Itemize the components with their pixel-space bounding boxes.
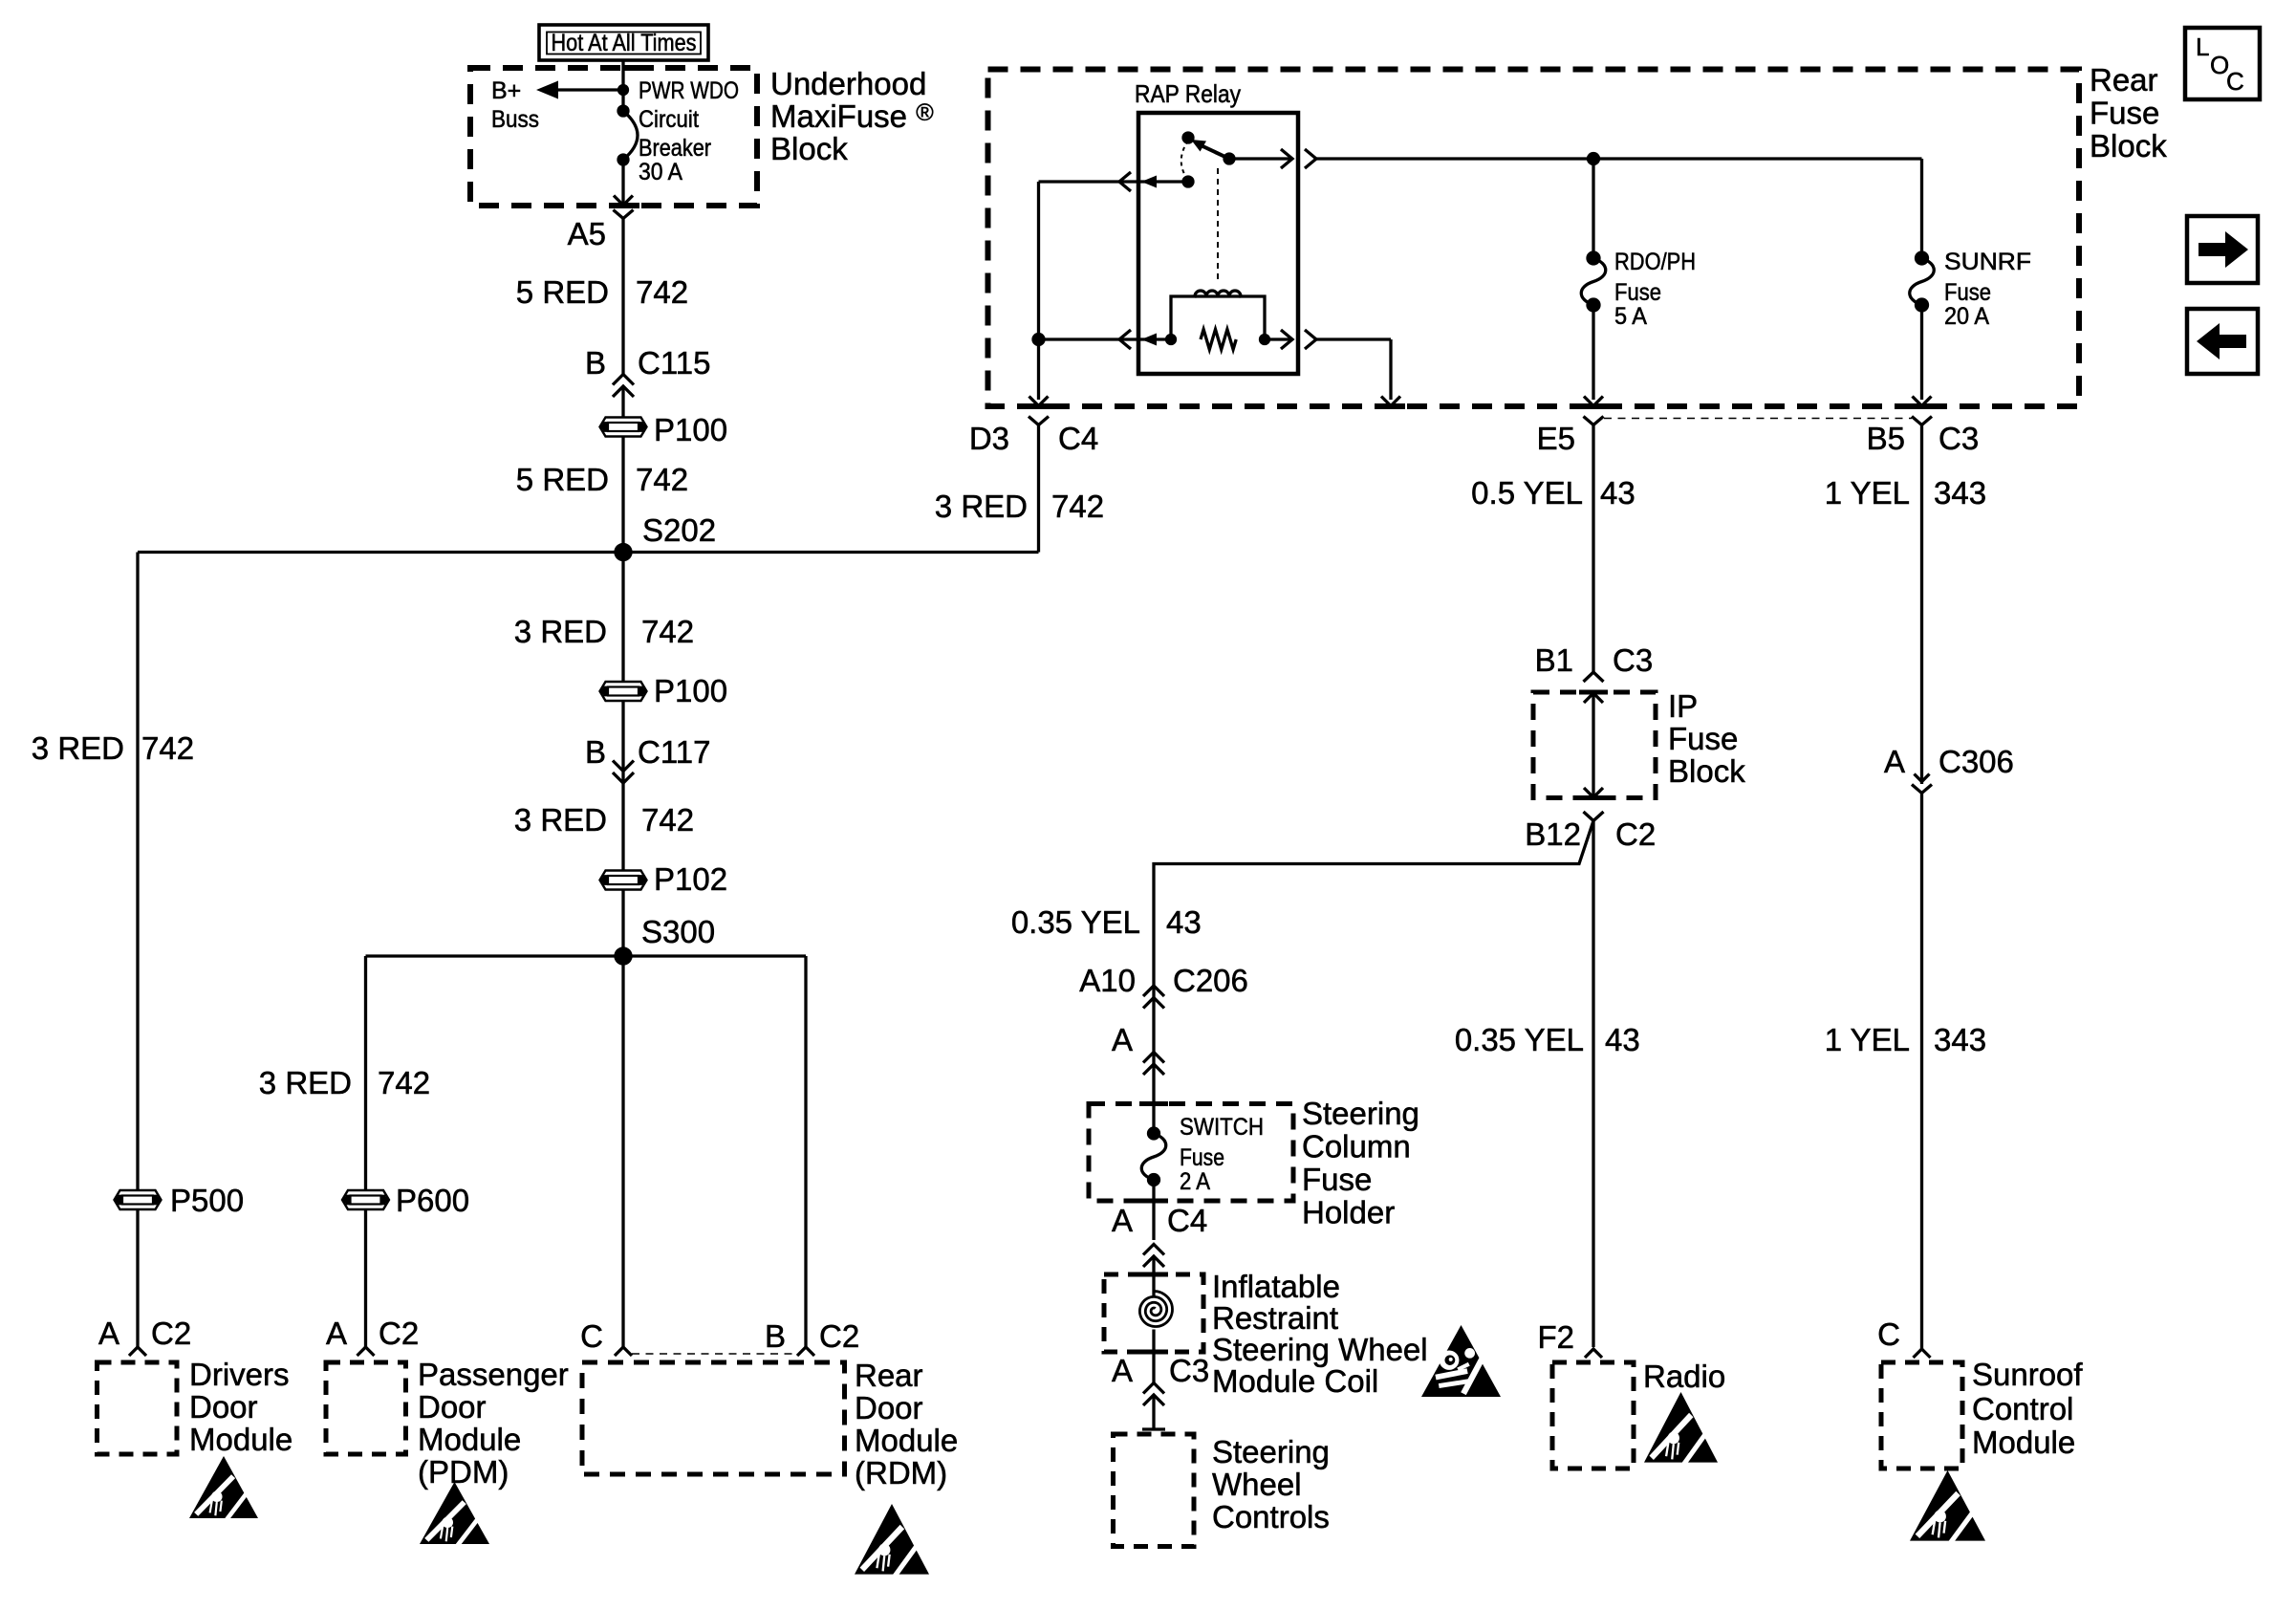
svg-text:B: B	[585, 734, 606, 770]
connector C206 pin A10	[1079, 963, 1248, 1009]
svg-text:SWITCH: SWITCH	[1180, 1114, 1264, 1141]
svg-text:Door: Door	[418, 1389, 487, 1425]
svg-text:3 RED: 3 RED	[32, 730, 124, 766]
wire from Hot box into block	[621, 60, 624, 111]
label 1 YEL 343 lower	[1825, 1022, 1986, 1057]
svg-text:C: C	[1877, 1316, 1900, 1352]
svg-text:30 A: 30 A	[639, 159, 682, 185]
svg-text:742: 742	[141, 730, 194, 766]
label 1 YEL 343	[1825, 475, 1986, 511]
relay coil	[1171, 291, 1265, 339]
connector C3 pin B1	[1535, 642, 1654, 682]
svg-text:Controls: Controls	[1212, 1499, 1330, 1534]
relay armature arm	[1198, 144, 1229, 160]
svg-text:F2: F2	[1537, 1319, 1574, 1355]
svg-text:C3: C3	[1169, 1353, 1209, 1388]
svg-text:C4: C4	[1058, 421, 1098, 456]
svg-text:742: 742	[641, 614, 694, 649]
wire fuse to holder edge	[1152, 1180, 1155, 1240]
svg-text:3 RED: 3 RED	[935, 489, 1028, 524]
wire RDO/PH fuse to edge	[1592, 305, 1594, 400]
IP Fuse Block dashed box	[1533, 692, 1656, 798]
wire passenger branch	[364, 956, 367, 1190]
svg-text:Drivers: Drivers	[189, 1357, 290, 1392]
grommet P600	[342, 1190, 389, 1209]
svg-text:742: 742	[378, 1065, 430, 1100]
wire 742 segment A5 to C115	[621, 219, 624, 375]
connector A5	[614, 210, 634, 219]
connector C2 pin B rear	[765, 1318, 859, 1356]
svg-text:742: 742	[636, 274, 688, 310]
Steering Wheel Controls dashed box	[1114, 1434, 1195, 1547]
connector pin F2 radio	[1537, 1319, 1602, 1358]
svg-text:Sunroof: Sunroof	[1972, 1357, 2083, 1392]
label 0.35 YEL 43 steering	[1011, 904, 1202, 940]
svg-text:P100: P100	[654, 412, 727, 447]
svg-text:Module: Module	[418, 1422, 521, 1457]
wire P100 to S202	[621, 436, 624, 553]
svg-text:Buss: Buss	[491, 106, 539, 133]
ESD symbol sunroof	[1910, 1470, 1985, 1545]
svg-text:(RDM): (RDM)	[855, 1455, 947, 1490]
svg-text:5 A: 5 A	[1614, 303, 1647, 330]
arrow right reference box	[2187, 216, 2258, 283]
svg-text:742: 742	[636, 462, 688, 497]
wire S300 down to RDM pin C	[621, 956, 624, 1347]
connector C2 pin B12	[1525, 812, 1656, 852]
wire C306 to sunroof module	[1920, 794, 1923, 1350]
wire P500 to drivers module	[136, 1210, 139, 1348]
svg-text:A: A	[326, 1316, 347, 1351]
wire down to SUNRF fuse	[1920, 159, 1923, 258]
svg-text:43: 43	[1166, 904, 1202, 940]
svg-text:D3: D3	[969, 421, 1009, 456]
Inflatable Restraint coil dashed box	[1104, 1274, 1203, 1352]
wire relay armature to left edge	[1039, 180, 1189, 183]
label 5 RED 742	[516, 274, 688, 310]
Hot At All Times label box	[539, 25, 708, 60]
svg-text:Module: Module	[1972, 1425, 2075, 1460]
svg-text:P100: P100	[654, 673, 727, 708]
wire B12 down to radio	[1592, 821, 1594, 1348]
svg-text:C2: C2	[819, 1318, 859, 1354]
wire B12 diagonal tap	[1154, 821, 1593, 1104]
svg-text:Fuse: Fuse	[1944, 279, 1991, 306]
label 3 RED 742	[32, 730, 194, 766]
fuse RDO/PH 5 A	[1581, 252, 1606, 311]
connector pin E5	[1537, 417, 1604, 457]
splice S300	[616, 948, 631, 964]
wire D3 to S202	[1037, 425, 1040, 553]
svg-text:0.35 YEL: 0.35 YEL	[1011, 904, 1140, 940]
wire coil to C3	[1152, 1330, 1155, 1383]
svg-text:Fuse: Fuse	[1614, 279, 1661, 306]
Sunroof Control Module box	[1881, 1362, 1962, 1469]
wire S202 down to P100	[621, 553, 624, 682]
wire S202 horizontal run	[138, 551, 1039, 554]
connector C3 pin A	[1112, 1353, 1209, 1405]
wire C4 to coil box	[1152, 1256, 1155, 1296]
svg-text:Fuse: Fuse	[1302, 1162, 1372, 1197]
circuit breaker PWR WDO 30 A	[618, 106, 638, 164]
wire relay NO output to fuses	[1229, 157, 1290, 160]
svg-text:B: B	[585, 345, 606, 381]
connector C2 link dashes	[632, 1353, 797, 1355]
svg-text:Steering: Steering	[1212, 1434, 1330, 1469]
coil spiral	[1139, 1292, 1172, 1327]
svg-text:Circuit: Circuit	[639, 106, 699, 133]
svg-text:20 A: 20 A	[1944, 303, 1989, 330]
label 5 RED 742	[516, 462, 688, 497]
svg-text:P102: P102	[654, 861, 727, 897]
svg-text:Block: Block	[2090, 128, 2167, 163]
connector C2 pin A drivers	[98, 1316, 191, 1356]
wire D3 feed column	[1037, 182, 1040, 400]
svg-text:5 RED: 5 RED	[516, 462, 609, 497]
svg-text:B5: B5	[1867, 421, 1905, 456]
wire relay coil row left	[1039, 337, 1172, 340]
svg-text:PWR WDO: PWR WDO	[639, 77, 739, 104]
svg-text:A5: A5	[568, 216, 606, 251]
svg-text:Door: Door	[855, 1390, 923, 1425]
svg-text:Rear: Rear	[855, 1358, 923, 1393]
Radio box	[1552, 1362, 1634, 1469]
connector C306 pin A	[1884, 744, 2014, 794]
arrow left reference box	[2187, 309, 2258, 374]
svg-text:RAP Relay: RAP Relay	[1135, 79, 1241, 108]
svg-text:C: C	[2226, 67, 2244, 96]
svg-text:A: A	[1112, 1353, 1133, 1388]
wire P600 to passenger module	[364, 1210, 367, 1348]
svg-text:3 RED: 3 RED	[259, 1065, 352, 1100]
wire breaker to block edge	[621, 160, 624, 203]
svg-text:343: 343	[1934, 1022, 1986, 1057]
svg-text:0.5 YEL: 0.5 YEL	[1471, 475, 1583, 511]
connector C4 pin A	[1112, 1203, 1207, 1267]
svg-text:RDO/PH: RDO/PH	[1614, 249, 1696, 275]
svg-text:C306: C306	[1939, 744, 2014, 779]
connector C2 pin A passenger	[326, 1316, 419, 1356]
svg-text:C4: C4	[1167, 1203, 1207, 1238]
svg-text:Block: Block	[770, 131, 848, 166]
svg-text:Fuse: Fuse	[1180, 1144, 1224, 1171]
relay pivot node	[1224, 154, 1234, 163]
svg-text:Control: Control	[1972, 1391, 2073, 1426]
node RDO/PH tap	[1589, 154, 1599, 164]
svg-text:1 YEL: 1 YEL	[1825, 1022, 1910, 1057]
svg-text:C117: C117	[638, 734, 710, 770]
svg-text:Fuse: Fuse	[2090, 96, 2159, 131]
wire B5 to C306	[1920, 425, 1923, 785]
ESD symbol passenger	[420, 1482, 489, 1548]
svg-text:43: 43	[1605, 1022, 1640, 1057]
svg-text:Restraint: Restraint	[1212, 1300, 1338, 1336]
svg-text:C3: C3	[1613, 642, 1653, 678]
svg-text:C206: C206	[1173, 963, 1248, 998]
LOC reference box	[2185, 28, 2260, 99]
relay contact travel dashed arc	[1181, 141, 1188, 179]
svg-text:Radio: Radio	[1643, 1359, 1725, 1394]
svg-text:Column: Column	[1302, 1129, 1411, 1164]
svg-text:P600: P600	[396, 1183, 469, 1218]
grommet P102	[600, 871, 647, 890]
fuse SWITCH 2 A	[1141, 1128, 1166, 1186]
svg-text:C3: C3	[1939, 421, 1979, 456]
wire SUNRF fuse to edge	[1920, 305, 1923, 400]
svg-text:B+: B+	[491, 77, 521, 104]
svg-text:C: C	[580, 1318, 603, 1354]
svg-text:Module Coil: Module Coil	[1212, 1363, 1378, 1399]
svg-text:Hot At All Times: Hot At All Times	[552, 30, 697, 56]
Steering Column Fuse Holder dashed box	[1089, 1104, 1293, 1202]
svg-text:Passenger: Passenger	[418, 1357, 569, 1392]
wire relay coil row right	[1265, 337, 1290, 340]
svg-text:S202: S202	[642, 512, 716, 548]
svg-text:Fuse: Fuse	[1668, 721, 1738, 756]
svg-text:3 RED: 3 RED	[514, 802, 607, 838]
connector pin C sunroof	[1877, 1316, 1930, 1358]
relay NO contact	[1183, 133, 1193, 142]
svg-text:Module: Module	[855, 1423, 958, 1458]
svg-text:C2: C2	[379, 1316, 419, 1351]
connector C2 pin C rear	[580, 1318, 632, 1356]
label 3 RED 742	[935, 489, 1104, 524]
wire P100 to C117	[621, 702, 624, 871]
label 0.35 YEL 43 radio	[1455, 1022, 1640, 1057]
svg-text:A: A	[1884, 744, 1905, 779]
svg-text:MaxiFuse ®: MaxiFuse ®	[770, 98, 934, 134]
splice S202	[616, 545, 631, 560]
svg-text:L: L	[2196, 33, 2209, 61]
svg-text:2 A: 2 A	[1180, 1168, 1210, 1195]
svg-text:(PDM): (PDM)	[418, 1454, 509, 1490]
svg-text:Module: Module	[189, 1422, 292, 1457]
wire E5 to IP fuse block	[1592, 425, 1594, 673]
svg-text:C115: C115	[638, 345, 710, 381]
svg-text:0.35 YEL: 0.35 YEL	[1455, 1022, 1584, 1057]
svg-text:P500: P500	[170, 1183, 244, 1218]
wire P102 to S300	[621, 890, 624, 956]
fuse SUNRF 20 A	[1910, 252, 1935, 311]
connector link dashes E5 B5	[1604, 418, 1912, 420]
Rear Door Module box	[582, 1362, 845, 1474]
svg-text:742: 742	[1051, 489, 1104, 524]
svg-text:A10: A10	[1079, 963, 1136, 998]
wire through IP fuse block	[1592, 692, 1594, 798]
wire rear door branch	[804, 956, 807, 1347]
svg-text:IP: IP	[1668, 688, 1698, 724]
label 3 RED 742	[514, 614, 694, 649]
ESD symbol module coil	[1421, 1325, 1501, 1397]
svg-text:5 RED: 5 RED	[516, 274, 609, 310]
ESD symbol rear door	[855, 1504, 929, 1578]
svg-text:343: 343	[1934, 475, 1986, 511]
svg-text:B: B	[765, 1318, 786, 1354]
connector C3 pin B5	[1867, 417, 1980, 457]
svg-text:B12: B12	[1525, 816, 1581, 852]
svg-text:Rear: Rear	[2090, 62, 2158, 98]
node B+ tap	[619, 86, 628, 95]
relay internal resistor	[1201, 330, 1236, 350]
wire down to RDO/PH fuse	[1592, 159, 1594, 258]
svg-text:Holder: Holder	[1302, 1195, 1395, 1230]
grommet P100 lower	[600, 682, 647, 701]
svg-text:S300: S300	[641, 914, 715, 949]
wire C115 to P100	[621, 386, 624, 418]
svg-text:1 YEL: 1 YEL	[1825, 475, 1910, 511]
label 3 RED 742	[514, 802, 694, 838]
svg-text:Steering: Steering	[1302, 1096, 1419, 1131]
svg-text:Inflatable: Inflatable	[1212, 1269, 1340, 1304]
svg-text:E5: E5	[1537, 421, 1575, 456]
connector C115 pin B	[585, 345, 710, 397]
svg-text:Steering Wheel: Steering Wheel	[1212, 1332, 1428, 1367]
Rear Fuse Block dashed box	[988, 70, 2080, 407]
wire S300 horizontal run	[366, 954, 807, 957]
svg-text:B1: B1	[1535, 642, 1573, 678]
grommet P100	[600, 418, 647, 437]
svg-text:Wheel: Wheel	[1212, 1467, 1302, 1502]
grommet P500	[115, 1190, 162, 1209]
relay armature contact	[1183, 177, 1193, 186]
connector C117 pin B	[585, 734, 710, 783]
svg-text:43: 43	[1600, 475, 1635, 511]
ESD symbol drivers	[189, 1456, 258, 1522]
svg-text:Underhood: Underhood	[770, 66, 926, 101]
svg-text:742: 742	[641, 802, 694, 838]
svg-text:A: A	[1112, 1022, 1133, 1057]
Drivers Door Module box	[97, 1362, 178, 1454]
svg-text:Door: Door	[189, 1389, 258, 1425]
wire into fuse holder	[1152, 1104, 1155, 1134]
wire drivers branch	[136, 553, 139, 1190]
label 3 RED 742	[259, 1065, 430, 1100]
Underhood MaxiFuse Block label	[770, 66, 934, 166]
RAP Relay box	[1138, 113, 1298, 374]
svg-text:3 RED: 3 RED	[514, 614, 607, 649]
svg-text:C2: C2	[1615, 816, 1656, 852]
svg-text:Breaker: Breaker	[639, 135, 711, 162]
relay actuation dashed link	[1217, 168, 1219, 279]
svg-text:A: A	[98, 1316, 119, 1351]
connector C4 pin D3	[969, 417, 1098, 457]
Underhood MaxiFuse Block dashed box	[470, 68, 757, 206]
ESD symbol radio	[1644, 1392, 1718, 1467]
svg-text:SUNRF: SUNRF	[1944, 249, 2031, 275]
wire B+ feed	[557, 88, 623, 91]
svg-text:A: A	[1112, 1203, 1133, 1238]
connector pin A steering column	[1112, 1022, 1164, 1075]
label 0.5 YEL 43	[1471, 475, 1635, 511]
wire C3 to steering wheel controls	[1152, 1395, 1155, 1429]
Passenger Door Module box	[326, 1362, 406, 1454]
svg-text:C2: C2	[151, 1316, 191, 1351]
svg-text:Block: Block	[1668, 753, 1745, 789]
